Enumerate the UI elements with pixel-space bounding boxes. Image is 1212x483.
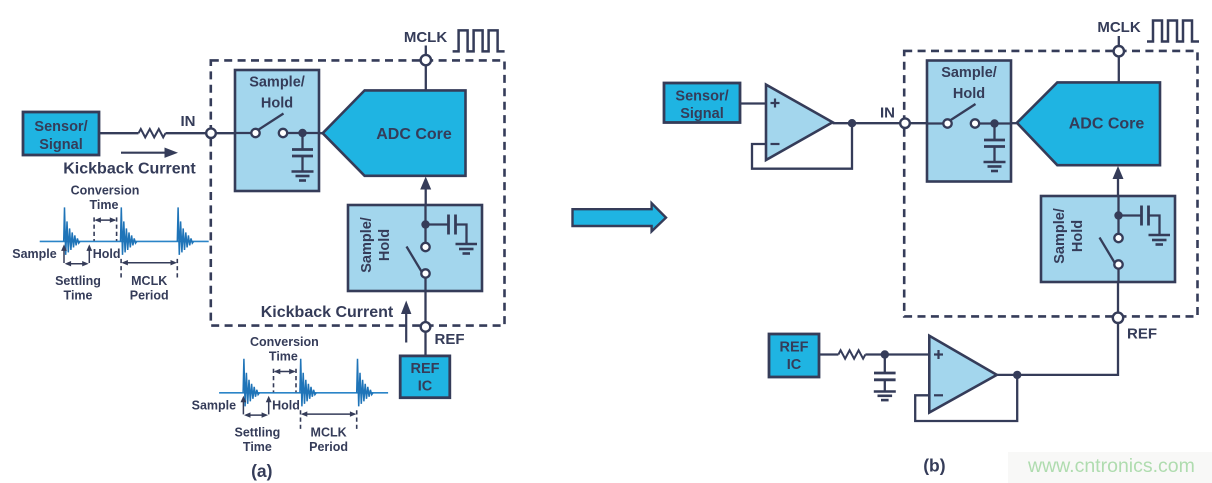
svg-text:Hold: Hold xyxy=(377,229,393,261)
svg-text:Conversion: Conversion xyxy=(71,183,140,197)
kickback current arrow (a ref) xyxy=(405,312,407,343)
svg-text:MCLK: MCLK xyxy=(131,274,167,288)
conversion time markers xyxy=(93,217,95,241)
svg-text:IN: IN xyxy=(181,113,196,130)
ground xyxy=(456,243,478,246)
ADC Core (b) xyxy=(1017,82,1160,165)
wire through xyxy=(424,205,426,247)
sample arrow xyxy=(63,249,65,263)
svg-text:Time: Time xyxy=(64,288,93,302)
kickback waveform diagram 1 (a input) xyxy=(12,183,208,302)
sample/hold block (vertical) xyxy=(348,205,482,291)
svg-text:Time: Time xyxy=(90,198,119,212)
MCLK stub wire xyxy=(425,46,427,56)
hold capacitor xyxy=(993,124,995,141)
dashed ADC boundary box (b) xyxy=(904,51,1197,317)
wire IN to sample/hold (a) xyxy=(216,132,237,134)
svg-text:IN: IN xyxy=(880,105,895,122)
output node dot U1 xyxy=(848,119,856,127)
switch xyxy=(950,104,976,121)
svg-text:ADC Core: ADC Core xyxy=(376,126,452,143)
svg-text:Signal: Signal xyxy=(39,137,83,153)
MCLK node circle (b) xyxy=(1114,46,1124,56)
svg-text:(b): (b) xyxy=(923,456,945,476)
wire through box xyxy=(234,132,256,134)
baseline xyxy=(40,240,209,242)
feedback loop U2 xyxy=(915,375,1017,421)
settling time arrow xyxy=(67,263,87,265)
wire op-amp out to IN node (b) xyxy=(833,122,901,124)
ground xyxy=(292,170,314,173)
svg-text:www.cntronics.com: www.cntronics.com xyxy=(1027,455,1195,477)
MCLK period markers xyxy=(120,259,122,280)
svg-text:Sensor/: Sensor/ xyxy=(675,89,728,105)
resistor (b) xyxy=(838,350,865,358)
svg-text:MCLK: MCLK xyxy=(404,29,447,46)
kickback transient bursts xyxy=(64,207,80,255)
wire sample/hold2 down to REF node (a) xyxy=(424,291,426,322)
svg-text:IC: IC xyxy=(418,379,433,395)
wire REF IC to resistor (b) xyxy=(819,353,838,355)
svg-text:Sample/: Sample/ xyxy=(1052,208,1068,264)
resistor (a) xyxy=(139,129,166,137)
svg-text:Settling: Settling xyxy=(55,274,101,288)
IN node circle (a) xyxy=(206,128,216,138)
svg-text:Sample/: Sample/ xyxy=(249,75,305,91)
svg-text:(a): (a) xyxy=(251,461,272,481)
svg-text:Period: Period xyxy=(130,288,169,302)
clock waveform glyph (b) xyxy=(1147,21,1199,42)
wire REF node to REF IC xyxy=(424,332,426,356)
op-amp buffer U2 (b ref) xyxy=(929,336,997,413)
Sensor/Signal box (a) xyxy=(23,112,99,155)
svg-text:Sensor/: Sensor/ xyxy=(34,119,87,135)
MCLK node circle (a) xyxy=(421,55,431,65)
svg-text:ADC Core: ADC Core xyxy=(1069,116,1145,133)
switch xyxy=(407,247,422,272)
REF IC box (b) xyxy=(769,334,819,377)
MCLK stub wire (b) xyxy=(1118,36,1120,46)
wire MCLK node to ADC core xyxy=(425,65,427,90)
clock waveform glyph (a) xyxy=(453,30,505,51)
svg-text:Hold: Hold xyxy=(953,86,985,102)
svg-text:REF: REF xyxy=(411,361,440,377)
decoupling node dot (b) xyxy=(881,350,889,358)
svg-text:Hold: Hold xyxy=(1070,220,1086,252)
wire sample/hold2 down to REF node (b) xyxy=(1117,282,1119,312)
svg-text:REF: REF xyxy=(780,340,809,356)
svg-text:Sample: Sample xyxy=(12,247,57,261)
ground (b decoupling) xyxy=(874,390,896,393)
wire through xyxy=(1117,196,1119,238)
hold capacitor (horizontal) xyxy=(1119,214,1142,216)
svg-text:Hold: Hold xyxy=(261,96,293,112)
kickback waveform diagram 2 (a ref) xyxy=(192,335,388,454)
node dot xyxy=(990,119,998,127)
hold capacitor (horizontal) xyxy=(426,223,449,225)
wire MCLK node to ADC core (b) xyxy=(1118,56,1120,82)
svg-text:REF: REF xyxy=(435,331,465,348)
output node dot U2 xyxy=(1013,371,1021,379)
decoupling capacitor C1 (b) xyxy=(884,355,886,374)
REF IC box (a) xyxy=(400,356,450,398)
svg-text:Kickback Current: Kickback Current xyxy=(63,161,196,178)
svg-text:Signal: Signal xyxy=(680,106,724,122)
REF node circle (a) xyxy=(421,322,431,332)
transient waveform with timing labels xyxy=(12,183,208,302)
switch xyxy=(1100,238,1115,263)
wire REF node down and to op-amp output (b) xyxy=(997,322,1118,375)
node dot xyxy=(421,220,429,228)
feedback loop U1 xyxy=(752,123,852,169)
svg-text:REF: REF xyxy=(1127,326,1157,343)
dashed ADC boundary box (a) xyxy=(211,60,505,325)
svg-text:Kickback Current: Kickback Current xyxy=(261,304,394,321)
node dot xyxy=(1114,211,1122,219)
wire sample/hold to ADC core (a) xyxy=(318,132,323,134)
wire sample/hold2 to ADC core with arrow (b) xyxy=(1117,176,1119,196)
wire resistor to IN node xyxy=(166,132,207,134)
wire sensor to resistor xyxy=(99,132,139,134)
switch xyxy=(258,114,284,131)
sample/hold block (horizontal) xyxy=(234,70,320,191)
ground xyxy=(1149,234,1171,237)
svg-text:Hold: Hold xyxy=(93,247,121,261)
sample/hold block (vertical) xyxy=(1041,196,1175,282)
wire sensor to op-amp (b) xyxy=(740,102,766,104)
sample/hold block (horizontal) xyxy=(926,61,1012,182)
kickback current arrow (a input) xyxy=(121,152,166,154)
IN node circle (b) xyxy=(900,118,910,128)
node dot xyxy=(298,129,306,137)
watermark band xyxy=(1008,452,1212,483)
hold capacitor xyxy=(301,133,303,150)
svg-text:Sample/: Sample/ xyxy=(359,217,375,273)
Sensor/Signal box (b) xyxy=(664,83,740,123)
svg-text:MCLK: MCLK xyxy=(1097,19,1140,36)
svg-text:Sample/: Sample/ xyxy=(941,65,997,81)
wire sample/hold to ADC core (b) xyxy=(1010,122,1017,124)
wire IN to sample/hold (b) xyxy=(910,122,928,124)
hold arrow xyxy=(88,249,90,263)
ADC Core (a) xyxy=(323,90,466,175)
svg-text:IC: IC xyxy=(787,357,802,373)
REF node circle (b) xyxy=(1113,313,1123,323)
wire through box xyxy=(926,122,948,124)
wire resistor to op-amp plus (b) xyxy=(865,353,929,355)
wire sample/hold2 to ADC core with arrow xyxy=(425,186,427,205)
ground xyxy=(984,161,1006,164)
op-amp buffer U1 (b input) xyxy=(766,85,833,160)
